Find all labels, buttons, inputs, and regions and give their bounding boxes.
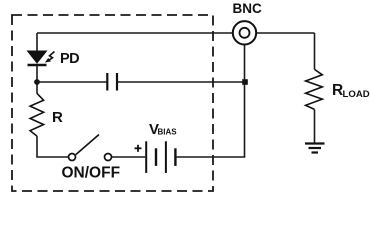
- svg-text:PD: PD: [60, 51, 79, 67]
- label ON/OFF: [62, 165, 121, 182]
- resistor RLOAD: [306, 69, 323, 109]
- wire: photodiode cathode down to node A: [36, 66, 38, 94]
- label VBIAS: [149, 121, 177, 138]
- light arrow into photodiode: [45, 52, 55, 63]
- battery VBIAS plus sign: [135, 145, 142, 152]
- ground: [305, 144, 325, 153]
- switch ON/OFF: [69, 135, 112, 161]
- label BNC: [233, 1, 262, 16]
- wire: node A to capacitor left plate: [37, 81, 107, 83]
- wire: battery negative plate to vertical return: [175, 156, 245, 158]
- wire: resistor R bottom down and right to switch: [37, 136, 68, 157]
- label R: [52, 109, 63, 126]
- wire: BNC center conductor down through node B to battery return: [244, 45, 246, 158]
- label PD: [60, 51, 79, 67]
- wire: vertical from top wire down to photodiode anode: [36, 33, 38, 52]
- label RLOAD: [332, 82, 370, 100]
- capacitor C: [107, 73, 117, 91]
- BNC connector: [233, 21, 256, 44]
- svg-text:BIAS: BIAS: [158, 128, 178, 137]
- svg-text:ON/OFF: ON/OFF: [62, 165, 121, 182]
- photodiode PD: [28, 51, 47, 65]
- resistor R: [30, 93, 43, 136]
- wire: capacitor right plate to node B: [118, 81, 245, 83]
- svg-text:R: R: [52, 109, 63, 126]
- wire: switch to battery positive plate: [112, 156, 145, 158]
- svg-text:BNC: BNC: [233, 1, 262, 16]
- node A junction dot: [34, 79, 40, 85]
- wire: top horizontal from PD branch to RLOAD branch: [37, 32, 315, 34]
- wire: RLOAD branch vertical from top wire: [314, 33, 316, 69]
- battery VBIAS: [146, 141, 175, 173]
- node B junction (square dot): [242, 79, 248, 85]
- dashed enclosure box: [12, 15, 213, 191]
- svg-text:LOAD: LOAD: [343, 89, 370, 100]
- wire: RLOAD bottom to ground: [314, 109, 316, 143]
